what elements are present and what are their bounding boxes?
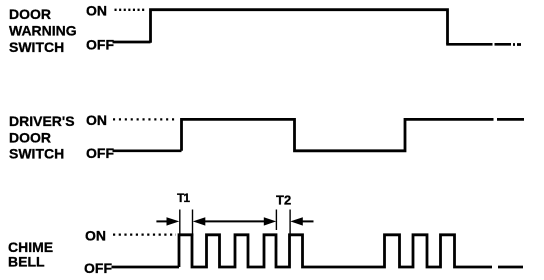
tick T2 right [289, 210, 291, 236]
wire row1 ON dotted level [115, 9, 147, 11]
arrow left outer pointing right at T1 [156, 217, 179, 225]
wire row2 waveform [182, 119, 525, 150]
label DOOR WARNING SWITCH [9, 6, 77, 55]
svg-text:BELL: BELL [8, 254, 45, 270]
svg-text:WARNING: WARNING [9, 23, 77, 39]
svg-text:SWITCH: SWITCH [9, 39, 64, 55]
label CHIME BELL [8, 239, 53, 270]
tick T2 left [275, 210, 277, 248]
svg-text:SWITCH: SWITCH [9, 146, 64, 162]
wire row3 chime pulse train [179, 235, 523, 267]
wire row1 OFF level left [113, 41, 151, 44]
wire row2 OFF level left [113, 149, 182, 152]
arrow right outer pointing left at T2 [290, 217, 313, 225]
svg-text:ON: ON [86, 112, 107, 128]
svg-text:DRIVER'S: DRIVER'S [9, 113, 75, 129]
svg-text:T2: T2 [276, 193, 291, 208]
arrow middle double-headed between T1 and T2 [193, 217, 276, 225]
tick T1 right [192, 210, 194, 237]
tick T1 left [179, 210, 181, 237]
svg-text:OFF: OFF [84, 260, 112, 276]
wire row1 OFF level right [446, 43, 521, 46]
svg-text:DOOR: DOOR [9, 6, 51, 22]
label DRIVER'S DOOR SWITCH [9, 113, 75, 162]
svg-text:ON: ON [86, 3, 107, 19]
wire row2 ON dotted level [113, 118, 178, 120]
svg-text:T1: T1 [177, 191, 190, 205]
svg-text:OFF: OFF [86, 145, 114, 161]
wire row3 ON dotted level [113, 233, 176, 235]
svg-text:ON: ON [85, 228, 106, 244]
svg-text:OFF: OFF [86, 37, 114, 53]
wire row3 OFF level left [112, 266, 180, 269]
wire row1 waveform rise-high-fall [151, 10, 448, 45]
svg-text:DOOR: DOOR [9, 130, 51, 146]
